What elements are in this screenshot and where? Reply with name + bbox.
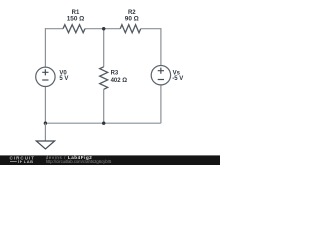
- resistor R3: [100, 67, 108, 90]
- svg-text:402 Ω: 402 Ω: [111, 78, 128, 84]
- resistor R2: [120, 25, 141, 33]
- wire middle vertical upper: [103, 29, 105, 67]
- voltage source Vs: [151, 66, 170, 85]
- ground stub wire: [44, 123, 46, 141]
- wire top right segment: [141, 28, 161, 30]
- wire right vertical upper: [160, 28, 162, 65]
- svg-text:150 Ω: 150 Ω: [67, 16, 85, 23]
- voltage source V0: [36, 67, 55, 86]
- wire top middle segment: [85, 28, 120, 30]
- Vs minus sign: [158, 79, 164, 81]
- watermark bar: [0, 155, 220, 165]
- wire bottom: [45, 122, 160, 124]
- junction dot top node: [102, 27, 105, 30]
- wire right vertical lower: [160, 85, 162, 123]
- ground: [36, 141, 54, 149]
- svg-text:90 Ω: 90 Ω: [125, 16, 139, 23]
- Vs plus sign: [158, 68, 164, 74]
- V0 minus sign: [42, 79, 48, 81]
- svg-text:R3: R3: [111, 70, 119, 76]
- svg-text:-5 V: -5 V: [172, 76, 183, 82]
- wire middle vertical lower: [103, 89, 105, 123]
- svg-text:LAB: LAB: [24, 159, 34, 164]
- junction dot bottom left node: [44, 122, 47, 125]
- wire left vertical lower: [44, 86, 46, 123]
- wire top left segment: [45, 28, 63, 30]
- svg-text:http://circuitlab.com/c/ahts2g: http://circuitlab.com/c/ahts2g6cybr5: [46, 159, 112, 164]
- logo LAB line: [10, 160, 22, 163]
- junction dot bottom middle node: [102, 122, 105, 125]
- V0 plus sign: [42, 69, 48, 75]
- resistor R1: [63, 25, 85, 33]
- svg-text:5 V: 5 V: [59, 76, 68, 82]
- wire left vertical upper: [44, 28, 46, 67]
